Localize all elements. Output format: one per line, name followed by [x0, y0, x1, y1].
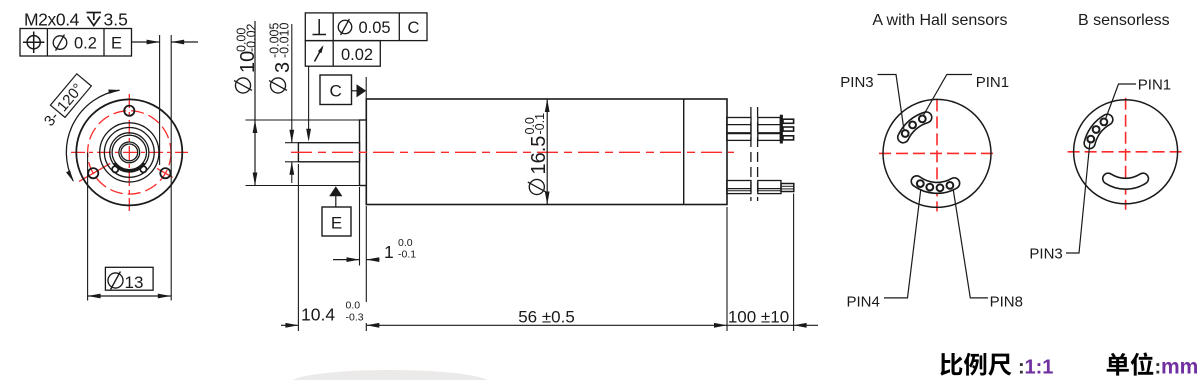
svg-text:10: 10 [237, 51, 259, 73]
svg-text:E: E [111, 35, 122, 53]
svg-text:-0.3: -0.3 [346, 312, 364, 324]
svg-text:M2x0.4: M2x0.4 [24, 10, 80, 30]
svg-text:PIN8: PIN8 [990, 294, 1023, 311]
svg-text:56 ±0.5: 56 ±0.5 [518, 308, 575, 327]
svg-text:0.0: 0.0 [346, 300, 361, 312]
svg-text:0.0: 0.0 [398, 237, 413, 249]
svg-text:10.4: 10.4 [301, 305, 335, 325]
svg-text:0.05: 0.05 [359, 19, 391, 37]
svg-text:mm: mm [1161, 356, 1198, 379]
svg-text:100 ±10: 100 ±10 [728, 308, 789, 327]
svg-text:0.2: 0.2 [74, 35, 97, 53]
svg-text:-0.010: -0.010 [278, 23, 292, 58]
svg-text:PIN3: PIN3 [1029, 246, 1062, 263]
svg-text:3: 3 [272, 62, 294, 73]
svg-text:3.5: 3.5 [104, 10, 128, 30]
svg-text:-0.1: -0.1 [398, 249, 416, 261]
svg-text:-0.02: -0.02 [245, 23, 259, 52]
svg-text:B sensorless: B sensorless [1078, 12, 1170, 29]
svg-text:C: C [330, 82, 342, 101]
svg-text:A with Hall sensors: A with Hall sensors [872, 12, 1007, 29]
svg-text:PIN3: PIN3 [840, 74, 873, 91]
svg-text:E: E [331, 214, 342, 233]
svg-text:16.5: 16.5 [528, 136, 550, 175]
svg-text:PIN1: PIN1 [1138, 77, 1171, 94]
svg-text:C: C [408, 19, 420, 37]
svg-text:0.02: 0.02 [341, 46, 373, 64]
svg-text:PIN4: PIN4 [847, 294, 880, 311]
svg-text:13: 13 [125, 273, 144, 292]
svg-text:1: 1 [384, 242, 394, 262]
svg-text:-0.1: -0.1 [533, 113, 547, 135]
svg-text:PIN1: PIN1 [976, 74, 1009, 91]
svg-text:1:1: 1:1 [1025, 357, 1054, 379]
